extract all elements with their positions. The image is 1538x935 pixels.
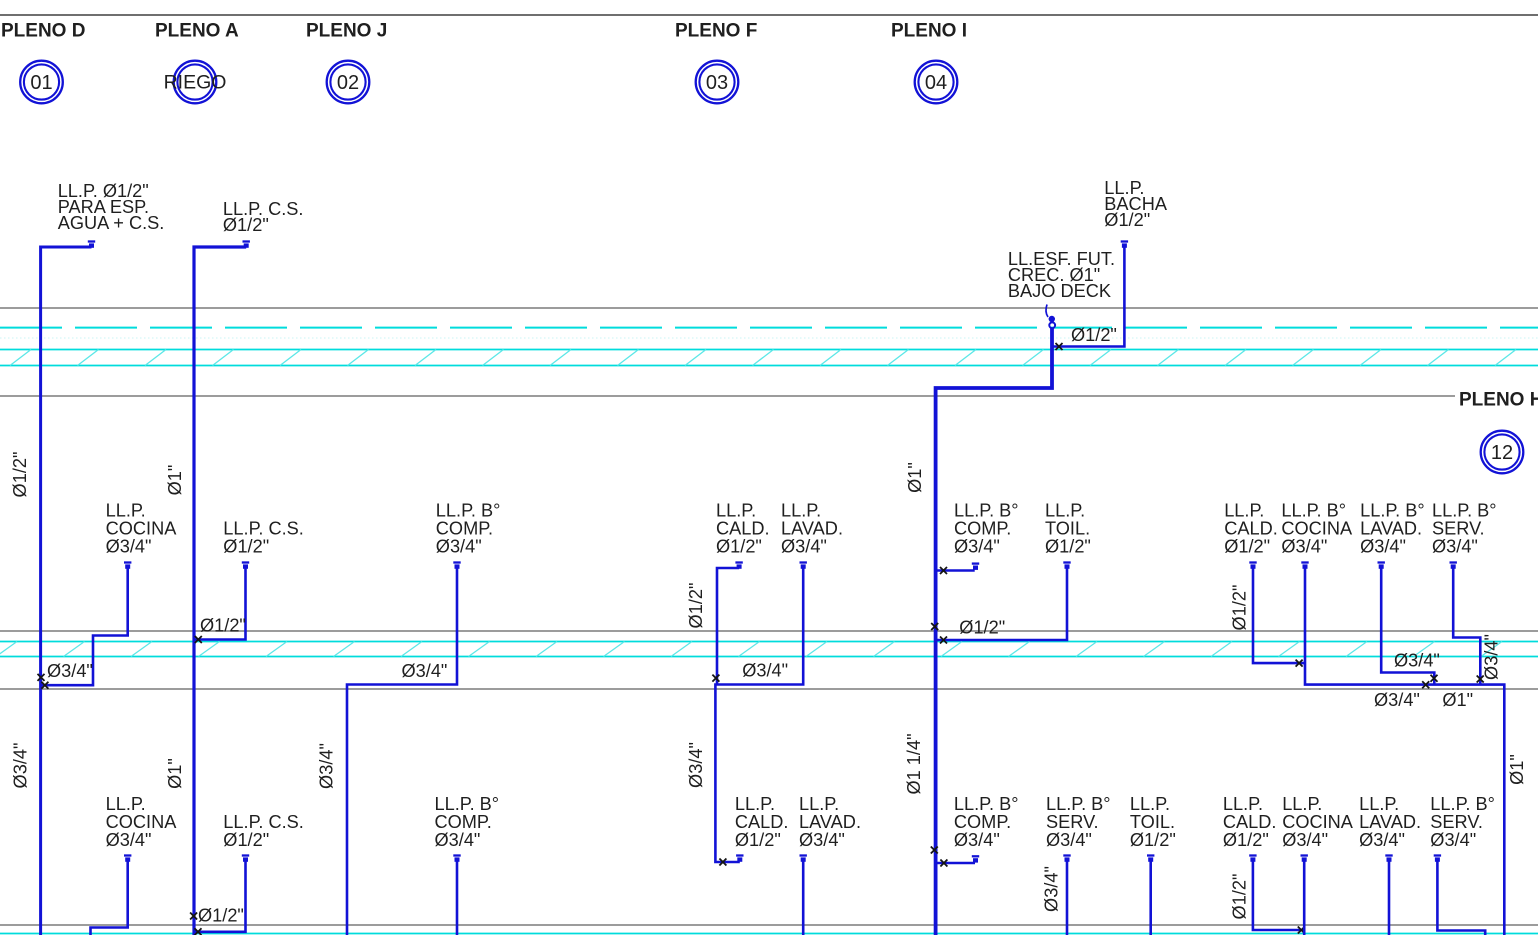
svg-text:12: 12 [1491, 442, 1513, 464]
connector tick CALD-H mid [1249, 563, 1256, 569]
svg-text:Ø3/4": Ø3/4" [316, 743, 336, 789]
ceiling slab top line (level 1) [0, 307, 1538, 309]
svg-text:Ø1/2": Ø1/2" [1071, 325, 1117, 345]
connector tick COCINA-H bottom [1301, 856, 1308, 862]
riser A size label Ø1" lower [165, 758, 185, 789]
ball valve LL.ESF. [1049, 322, 1055, 328]
label LL.P. TOIL. Ø1/2" bottom I [1130, 794, 1176, 850]
label LL.P. Ø1/2" PARA ESP. AGUA + C.S. [58, 181, 165, 233]
connector tick top of PLENO A feed [243, 242, 250, 248]
leader line to ball valve [1046, 305, 1055, 323]
svg-text:PLENO H: PLENO H [1459, 390, 1538, 411]
pipe COCINA-H chain [1305, 566, 1504, 935]
svg-text:LL.P. B°: LL.P. B° [1360, 501, 1425, 521]
connector tick top of PLENO D feed [88, 242, 95, 248]
riser COMP-B size label Ø3/4" rotated [316, 743, 336, 789]
pipe COCINA-A bottom [91, 859, 128, 935]
pipe LAVAD-F bottom [802, 859, 805, 935]
junction X CALD-H bottom [1298, 927, 1305, 934]
pipe COMP-I mid [937, 569, 975, 572]
size label Ø3/4" SERV-I rotated [1042, 866, 1062, 912]
label LL.P. LAVAD. Ø3/4" bottom F [799, 794, 861, 850]
label LL.P. B° COMP. Ø3/4" mid [436, 501, 501, 557]
label LL.P. CALD. Ø1/2" mid H [1224, 501, 1278, 557]
junction X chain-H mid [1422, 681, 1429, 688]
node balloon 02 (PLENO J) [327, 61, 370, 104]
svg-text:LL.P. B°: LL.P. B° [1281, 501, 1346, 521]
svg-text:Ø3/4": Ø3/4" [11, 743, 31, 789]
svg-text:Ø1": Ø1" [165, 758, 185, 789]
junction X riser I mid [931, 623, 938, 630]
riser I size label Ø1" rotated [905, 462, 925, 493]
svg-text:02: 02 [337, 72, 359, 94]
junction X riser I bottom [931, 847, 938, 854]
label LL.P. B° COMP. Ø3/4" bottom B [435, 794, 500, 850]
junction X riser D upper [38, 674, 45, 681]
svg-text:Ø1/2": Ø1/2" [959, 618, 1005, 638]
svg-text:Ø3/4": Ø3/4" [435, 830, 481, 850]
svg-text:Ø3/4": Ø3/4" [1046, 830, 1092, 850]
header PLENO J [306, 21, 387, 42]
svg-text:SERV.: SERV. [1430, 812, 1483, 832]
pipe C.S. mid branch [194, 566, 246, 640]
svg-text:Ø3/4": Ø3/4" [686, 742, 706, 788]
label LL.P. C.S. Ø1/2" bottom A [223, 812, 304, 850]
junction X riser D branch [41, 682, 48, 689]
riser H size label Ø1" rotated [1507, 754, 1527, 785]
svg-text:COMP.: COMP. [954, 812, 1011, 832]
label LL.P. COCINA Ø3/4" bottom H [1282, 794, 1354, 850]
svg-text:LAVAD.: LAVAD. [781, 519, 843, 539]
size label Ø1/2" C.S.-A bottom [198, 906, 244, 926]
svg-text:Ø1/2": Ø1/2" [1223, 830, 1269, 850]
svg-text:04: 04 [925, 72, 947, 94]
svg-text:Ø3/4": Ø3/4" [1394, 651, 1440, 671]
hatched slab band 2 [0, 642, 1538, 657]
pipe SERV-H mid [1453, 566, 1480, 685]
node balloon 03 (PLENO F) [696, 61, 739, 104]
junction X C.S.-A bottom [195, 928, 202, 935]
size label Ø1" chain-H [1442, 690, 1473, 710]
pipe LAVAD-H mid [1381, 566, 1434, 685]
size label Ø3/4" COMP-B [402, 661, 448, 681]
junction X riser A bottom [190, 913, 197, 920]
pipe COMP-I bottom [937, 862, 975, 865]
svg-text:LAVAD.: LAVAD. [1360, 519, 1422, 539]
size label Ø3/4" at riser D junction [47, 661, 93, 681]
riser PLENO D [41, 247, 92, 935]
svg-text:Ø3/4": Ø3/4" [954, 537, 1000, 557]
svg-text:PLENO F: PLENO F [675, 21, 757, 42]
connector tick SERV-H mid [1450, 563, 1457, 569]
pipe LAVAD-H bottom [1388, 859, 1391, 935]
pipe COMP-B chain [347, 566, 457, 935]
connector tick LAVAD-F mid [800, 563, 807, 569]
svg-text:SERV.: SERV. [1432, 519, 1485, 539]
connector tick COCINA mid [124, 563, 131, 569]
svg-text:PLENO I: PLENO I [891, 21, 967, 42]
svg-text:LL.P. B°: LL.P. B° [1046, 794, 1111, 814]
pipe LAVAD-F mid [715, 566, 803, 862]
svg-text:Ø3/4": Ø3/4" [1359, 830, 1405, 850]
connector tick C.S. mid [242, 563, 249, 569]
pipe CALD-H bottom [1253, 859, 1304, 930]
svg-text:LL.P.: LL.P. [106, 501, 146, 521]
svg-text:LL.P. B°: LL.P. B° [1430, 794, 1495, 814]
svg-text:01: 01 [30, 72, 52, 94]
slab band 3 top cyan line [0, 933, 1538, 935]
svg-text:LL.P. B°: LL.P. B° [954, 794, 1019, 814]
junction X CALD-F bottom [719, 859, 726, 866]
label LL.P. B° COMP. Ø3/4" mid I [954, 501, 1019, 557]
svg-text:Ø1/2": Ø1/2" [1230, 585, 1250, 631]
svg-text:LL.P.: LL.P. [781, 501, 821, 521]
svg-text:LL.P.: LL.P. [735, 794, 775, 814]
svg-text:Ø3/4": Ø3/4" [1281, 537, 1327, 557]
label LL.P. C.S. Ø1/2" mid [223, 519, 304, 557]
pipe COCINA-H bottom [1303, 859, 1306, 935]
svg-text:Ø3/4": Ø3/4" [1282, 830, 1328, 850]
pipe CALD-H mid [1253, 566, 1305, 663]
svg-text:Ø3/4": Ø3/4" [1374, 690, 1420, 710]
header PLENO I [891, 21, 967, 42]
label LL.P. LAVAD. Ø3/4" mid F [781, 501, 843, 557]
header PLENO D [1, 21, 85, 42]
svg-text:COCINA: COCINA [1282, 812, 1354, 832]
svg-text:COCINA: COCINA [1281, 519, 1353, 539]
pipe CALD-F mid [717, 568, 739, 685]
svg-text:Ø1 1/4": Ø1 1/4" [904, 733, 924, 794]
label LL.ESF. FUT. CREC. Ø1" BAJO DECK [1008, 249, 1115, 301]
connector tick COMP-B bottom [453, 856, 460, 862]
svg-text:PLENO D: PLENO D [1, 21, 85, 42]
svg-text:Ø3/4": Ø3/4" [106, 830, 152, 850]
svg-text:Ø1": Ø1" [905, 462, 925, 493]
svg-text:LL.P.: LL.P. [716, 501, 756, 521]
svg-text:Ø3/4": Ø3/4" [954, 830, 1000, 850]
svg-text:TOIL.: TOIL. [1045, 519, 1090, 539]
connector tick C.S.-A bottom [242, 856, 249, 862]
svg-text:Ø3/4": Ø3/4" [436, 537, 482, 557]
pipe BACHA branch [1053, 244, 1124, 347]
svg-text:Ø1/2": Ø1/2" [10, 452, 30, 498]
connector tick BACHA [1121, 242, 1128, 248]
svg-text:LL.P. C.S.: LL.P. C.S. [223, 812, 304, 832]
node balloon 01 (PLENO D) [20, 61, 63, 104]
svg-text:Ø1/2": Ø1/2" [1224, 537, 1270, 557]
size label Ø1/2" TOIL-I [959, 618, 1005, 638]
label LL.P. COCINA Ø3/4" bottom A [106, 794, 178, 850]
header PLENO H [1459, 390, 1538, 411]
svg-text:LL.P. C.S.: LL.P. C.S. [223, 519, 304, 539]
svg-text:PLENO J: PLENO J [306, 21, 387, 42]
label LL.P. B° SERV. Ø3/4" bottom H [1430, 794, 1495, 850]
connector tick COCINA-H mid [1301, 563, 1308, 569]
connector tick LAVAD-F bottom [800, 856, 807, 862]
svg-text:Ø1/2": Ø1/2" [1130, 830, 1176, 850]
pipe COCINA mid branch [41, 566, 128, 685]
svg-text:LL.P.: LL.P. [1223, 794, 1263, 814]
pipe C.S.-A bottom [194, 859, 246, 932]
riser A size label Ø1" [165, 465, 185, 496]
label LL.P. B° SERV. Ø3/4" bottom I [1046, 794, 1111, 850]
junction X LAVAD-H mid [1431, 675, 1438, 682]
svg-text:RIEGO: RIEGO [164, 72, 227, 94]
junction X CALD-H mid [1296, 660, 1303, 667]
label LL.P. CALD. Ø1/2" bottom H [1223, 794, 1277, 850]
junction X chain F [712, 675, 719, 682]
junction X COMP-I bottom [940, 860, 947, 867]
svg-text:COMP.: COMP. [954, 519, 1011, 539]
top border line [0, 14, 1538, 16]
label LL.P. B° COCINA Ø3/4" mid H [1281, 501, 1353, 557]
svg-text:LAVAD.: LAVAD. [1359, 812, 1421, 832]
svg-text:BAJO DECK: BAJO DECK [1008, 281, 1111, 301]
header PLENO A [155, 21, 239, 42]
svg-text:Ø1/2": Ø1/2" [223, 537, 269, 557]
connector tick LAVAD-H bottom [1385, 856, 1392, 862]
connector tick TOIL-I mid [1063, 563, 1070, 569]
svg-text:LAVAD.: LAVAD. [799, 812, 861, 832]
svg-text:Ø3/4": Ø3/4" [106, 537, 152, 557]
svg-text:03: 03 [706, 72, 728, 94]
slab bottom line (level 2) [0, 688, 1538, 690]
svg-text:TOIL.: TOIL. [1130, 812, 1175, 832]
svg-text:Ø3/4": Ø3/4" [742, 661, 788, 681]
svg-text:Ø1/2": Ø1/2" [200, 616, 246, 636]
svg-text:LL.P. B°: LL.P. B° [435, 794, 500, 814]
svg-text:AGUA + C.S.: AGUA + C.S. [58, 213, 165, 233]
riser F size label Ø1/2" rotated [686, 583, 706, 629]
size label Ø1/2" C.S. mid [200, 616, 246, 636]
connector tick COMP-I bottom [972, 856, 979, 862]
svg-text:COMP.: COMP. [435, 812, 492, 832]
riser CALD-H bottom size label Ø1/2" rotated [1230, 874, 1250, 920]
pipe COMP-B bottom [456, 859, 459, 935]
connector tick SERV-I bottom [1063, 856, 1070, 862]
label LL.P. CALD. Ø1/2" mid F [716, 501, 770, 557]
label LL.P. C.S. Ø1/2" top [223, 199, 304, 235]
pipe SERV-I bottom [1066, 859, 1069, 935]
connector tick TOIL-I bottom [1147, 856, 1154, 862]
junction X C.S. mid [195, 636, 202, 643]
svg-text:Ø1/2": Ø1/2" [223, 830, 269, 850]
junction X SERV-H mid [1477, 676, 1484, 683]
pipe SERV-H bottom [1437, 859, 1485, 935]
svg-text:Ø1": Ø1" [1442, 690, 1473, 710]
svg-text:LL.P.: LL.P. [1359, 794, 1399, 814]
connector tick LAVAD-H mid [1378, 563, 1385, 569]
faint dotted line band 1 [0, 337, 1538, 339]
label LL.P. TOIL. Ø1/2" mid I [1045, 501, 1091, 557]
header PLENO F [675, 21, 757, 42]
svg-text:Ø3/4": Ø3/4" [1042, 866, 1062, 912]
slab top line (level 2) [0, 630, 1538, 632]
svg-text:Ø3/4": Ø3/4" [47, 661, 93, 681]
svg-text:LL.P. B°: LL.P. B° [954, 501, 1019, 521]
connector tick CALD-H bottom [1249, 856, 1256, 862]
svg-text:Ø3/4": Ø3/4" [781, 537, 827, 557]
size label Ø3/4" LAVAD-H [1394, 651, 1440, 671]
connector tick CALD-F mid [735, 563, 742, 569]
svg-text:CALD.: CALD. [735, 812, 789, 832]
riser PLENO A [194, 247, 246, 935]
svg-text:LL.P.: LL.P. [106, 794, 146, 814]
svg-text:Ø1/2": Ø1/2" [716, 537, 762, 557]
svg-text:LL.P.: LL.P. [799, 794, 839, 814]
svg-text:Ø1": Ø1" [1507, 754, 1527, 785]
pipe TOIL-I mid [937, 566, 1067, 640]
svg-text:LL.P.: LL.P. [1224, 501, 1264, 521]
label LL.P. B° COMP. Ø3/4" bottom I [954, 794, 1019, 850]
svg-text:Ø3/4": Ø3/4" [1482, 634, 1502, 680]
node balloon RIEGO (PLENO A) [164, 61, 227, 104]
svg-text:LL.P.: LL.P. [1045, 501, 1085, 521]
node balloon 04 (PLENO I) [915, 61, 958, 104]
svg-text:Ø3/4": Ø3/4" [1432, 537, 1478, 557]
svg-text:Ø3/4": Ø3/4" [799, 830, 845, 850]
svg-text:SERV.: SERV. [1046, 812, 1099, 832]
size label Ø1/2" BACHA [1071, 325, 1117, 345]
size label Ø3/4" SERV-H rotated [1482, 634, 1502, 680]
svg-text:LL.P.: LL.P. [1130, 794, 1170, 814]
svg-text:COMP.: COMP. [436, 519, 493, 539]
connector tick CALD-F bottom [736, 856, 743, 862]
svg-text:Ø3/4": Ø3/4" [1360, 537, 1406, 557]
label LL.P. COCINA Ø3/4" mid [106, 501, 178, 557]
junction X COMP-I mid [940, 567, 947, 574]
connector tick COCINA-A bottom [124, 856, 131, 862]
svg-text:Ø1/2": Ø1/2" [686, 583, 706, 629]
hatched slab band 1 [0, 350, 1538, 366]
pipe TOIL-I bottom [1149, 859, 1152, 935]
svg-text:LL.P. B°: LL.P. B° [436, 501, 501, 521]
label LL.P. BACHA Ø1/2" [1104, 178, 1168, 230]
svg-text:LL.P. B°: LL.P. B° [1432, 501, 1497, 521]
label LL.P. B° SERV. Ø3/4" mid H [1432, 501, 1497, 557]
svg-text:Ø3/4": Ø3/4" [1430, 830, 1476, 850]
svg-text:Ø1/2": Ø1/2" [1045, 537, 1091, 557]
svg-text:Ø1": Ø1" [165, 465, 185, 496]
svg-text:CALD.: CALD. [1223, 812, 1277, 832]
svg-text:Ø1/2": Ø1/2" [1230, 874, 1250, 920]
riser F size label Ø3/4" rotated [686, 742, 706, 788]
junction X TOIL-I mid [940, 637, 947, 644]
connector tick SERV-H bottom [1434, 856, 1441, 862]
riser D size label Ø1/2" [10, 452, 30, 498]
svg-text:LL.P.: LL.P. [1282, 794, 1322, 814]
riser CALD-H size label Ø1/2" rotated [1230, 585, 1250, 631]
riser I size label Ø1 1/4" rotated [904, 733, 924, 794]
node balloon 12 (PLENO H) [1481, 431, 1524, 474]
svg-text:PLENO A: PLENO A [155, 21, 239, 42]
svg-text:Ø1/2": Ø1/2" [735, 830, 781, 850]
size label Ø3/4" chain F [742, 661, 788, 681]
svg-text:Ø3/4": Ø3/4" [402, 661, 448, 681]
ceiling slab bottom line (level 1) [0, 395, 1455, 397]
svg-text:COCINA: COCINA [106, 812, 178, 832]
junction X BACHA [1056, 343, 1063, 350]
connector tick COMP-B mid [453, 563, 460, 569]
label LL.P. CALD. Ø1/2" bottom F [735, 794, 789, 850]
label LL.P. LAVAD. Ø3/4" bottom H [1359, 794, 1421, 850]
riser D size label Ø3/4" [11, 743, 31, 789]
label LL.P. B° LAVAD. Ø3/4" mid H [1360, 501, 1425, 557]
slab top line (level 3) [0, 924, 1538, 926]
cyan dashed centerline band 1 [0, 327, 1538, 329]
svg-text:Ø1/2": Ø1/2" [223, 215, 269, 235]
svg-text:Ø1/2": Ø1/2" [1104, 210, 1150, 230]
svg-text:COCINA: COCINA [106, 519, 178, 539]
riser PLENO I upper jog [936, 329, 1052, 935]
svg-text:Ø1/2": Ø1/2" [198, 906, 244, 926]
size label Ø3/4" chain-H [1374, 690, 1420, 710]
svg-text:CALD.: CALD. [716, 519, 770, 539]
svg-text:CALD.: CALD. [1224, 519, 1278, 539]
connector tick COMP-I mid [972, 564, 979, 570]
